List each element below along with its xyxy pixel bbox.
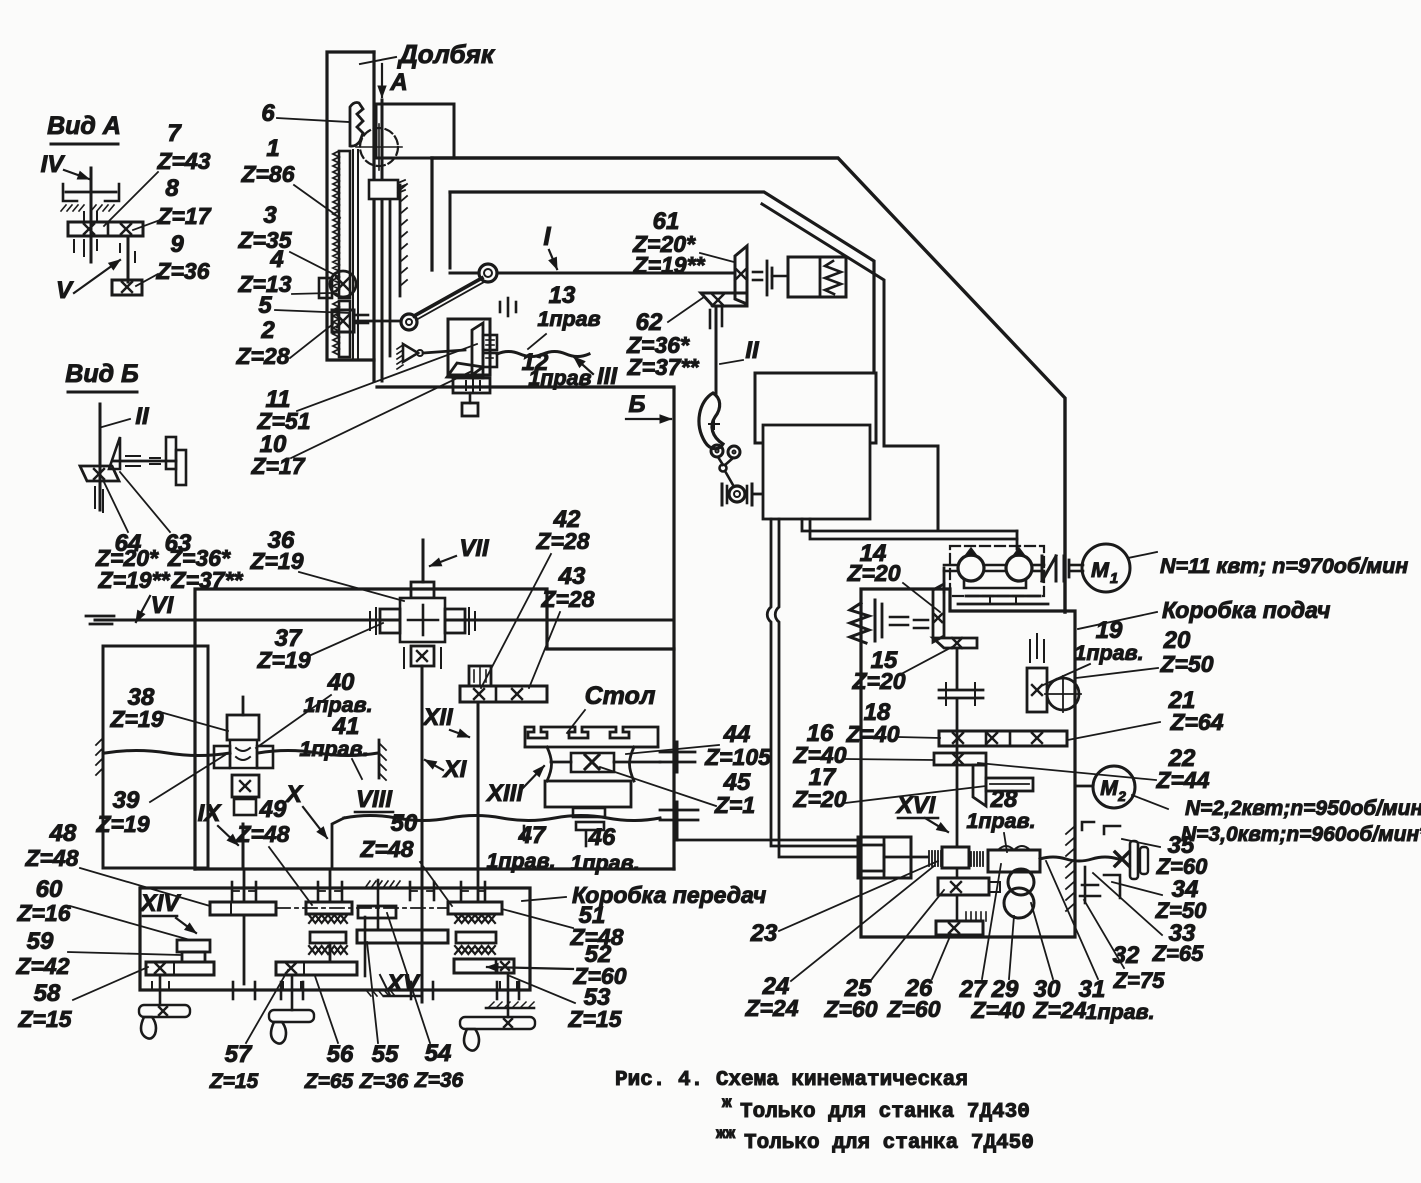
pump shaft (944, 564, 958, 567)
bracket bottom 34 (1104, 875, 1120, 898)
svg-text:1: 1 (266, 135, 279, 162)
machine outer contour (432, 158, 1065, 612)
hydraulic block rear rectangle (755, 373, 876, 443)
dash-dot axis (276, 907, 448, 909)
pawl rollers (711, 445, 723, 457)
slideway wall with hatching (399, 185, 402, 296)
svg-text:Z=1: Z=1 (714, 792, 755, 818)
svg-text:1прав: 1прав (528, 366, 591, 390)
shaft I (450, 272, 479, 275)
shaft IV vertical (90, 168, 93, 262)
svg-text:N=11 квт; n=970об/мин: N=11 квт; n=970об/мин (1160, 554, 1408, 578)
pump 1 (958, 555, 984, 581)
svg-text:7: 7 (167, 120, 182, 147)
shaft XI in box (421, 869, 424, 1002)
thin guide bar right of rack (352, 150, 354, 358)
hydraulic cylinder on shaft XVI (858, 837, 911, 878)
shaft XII vertical (477, 702, 480, 869)
bed horizontal line to Б (377, 385, 674, 388)
bevel gear 14 Z=20 (933, 584, 944, 642)
svg-text:1прав.: 1прав. (299, 737, 368, 761)
svg-text:XV: XV (385, 970, 421, 997)
left gear box outline (195, 589, 674, 869)
bevel gears 3/4 cluster (330, 271, 356, 297)
svg-text:XIV: XIV (139, 890, 182, 917)
svg-text:Z=28: Z=28 (235, 343, 289, 369)
svg-text:Z=37**: Z=37** (627, 354, 700, 380)
shaft under 56 with weight 2 (291, 975, 294, 1010)
bottom bearings (232, 982, 235, 999)
inner contour second line / pump feed (762, 204, 938, 530)
table cross-section with T-slots (525, 727, 658, 747)
pump unit dashed housing (950, 546, 1044, 596)
bearings on box top (231, 882, 234, 900)
svg-text:Стол: Стол (585, 682, 656, 710)
svg-text:23: 23 (750, 920, 778, 947)
link lower pivot (401, 314, 417, 330)
svg-text:Z=43: Z=43 (156, 148, 210, 174)
svg-text:41: 41 (332, 713, 360, 740)
cutter 6 profile (350, 103, 363, 147)
svg-text:XI: XI (442, 756, 468, 783)
shaft from gear 2 to rocker (354, 320, 401, 323)
bold cross on screw shaft (1115, 852, 1129, 866)
gear 9 Z=36 (112, 280, 142, 295)
svg-text:М: М (1100, 777, 1118, 800)
svg-text:9: 9 (170, 231, 184, 258)
svg-text:Z=36: Z=36 (359, 1070, 409, 1093)
svg-text:Z=64: Z=64 (1169, 709, 1223, 735)
svg-text:М: М (1091, 558, 1110, 582)
machine inner contour (450, 192, 874, 372)
cone stack on shaft X (306, 902, 352, 914)
gear bar 25 (938, 878, 989, 895)
ram column left plate (327, 52, 374, 360)
svg-text:Рис. 4. Схема кинематическая: Рис. 4. Схема кинематическая (615, 1069, 968, 1092)
bevel gear 15 Z=20 (933, 638, 977, 648)
gear circles 29 30 (1008, 869, 1034, 895)
shaft XI vertical (421, 666, 424, 869)
svg-text:Б: Б (629, 391, 646, 418)
gear 36/37 cross assembly on VI/VII (422, 540, 425, 582)
svg-text:Z=17: Z=17 (156, 203, 211, 229)
svg-text:Z=86: Z=86 (240, 161, 294, 187)
link line to feed box (677, 839, 861, 842)
hydraulic cylinder box (763, 425, 870, 519)
svg-text:VII: VII (459, 535, 490, 562)
gear rack 1 Z=86 upper part (339, 151, 350, 298)
svg-text:19: 19 (1096, 617, 1123, 644)
shift coupling XVI (942, 847, 969, 868)
svg-text:N=2,2квт;n=950об/мин*: N=2,2квт;n=950об/мин* (1185, 797, 1421, 820)
svg-text:Z=20: Z=20 (846, 560, 900, 586)
svg-text:Z=19: Z=19 (249, 548, 303, 574)
svg-text:1прав.: 1прав. (1074, 641, 1143, 665)
hatch on bottom edge (366, 990, 371, 996)
svg-text:Z=50: Z=50 (1159, 651, 1213, 677)
valve on box (729, 486, 745, 502)
svg-text:Вид Б: Вид Б (65, 360, 138, 388)
gear 56 bar (276, 962, 357, 975)
svg-text:ж: ж (722, 1094, 732, 1112)
svg-text:Z=24: Z=24 (744, 995, 798, 1021)
svg-text:Z=19: Z=19 (109, 706, 163, 732)
svg-text:Z=60: Z=60 (823, 996, 877, 1022)
shaft IX in box (243, 869, 246, 902)
shaft IX vertical (242, 824, 245, 869)
shaft II (view B) vertical (99, 404, 102, 510)
svg-text:2: 2 (1117, 788, 1126, 804)
svg-text:Z=40: Z=40 (845, 721, 899, 747)
bevel gear 10 Z=17 (447, 363, 483, 378)
gear rack lower part (339, 301, 350, 357)
gear 63 (view B) right flanges (166, 437, 176, 469)
svg-text:4: 4 (269, 246, 283, 273)
svg-text:20: 20 (1163, 627, 1191, 654)
svg-text:Z=16: Z=16 (16, 900, 70, 926)
labels N for M2 with leader (1132, 795, 1168, 809)
svg-text:50: 50 (391, 810, 418, 837)
left wall hatching (102, 735, 105, 775)
arrow A (cut direction) (381, 64, 383, 97)
svg-text:2: 2 (260, 317, 275, 344)
bevel flag under 16 (973, 765, 986, 806)
shaft II vertical (715, 306, 718, 412)
wavy shaft 46/47 (344, 816, 660, 821)
svg-text:58: 58 (34, 980, 61, 1007)
svg-text:Z=15: Z=15 (209, 1070, 259, 1093)
svg-text:VI: VI (151, 592, 175, 619)
svg-text:II: II (135, 403, 150, 430)
svg-text:1прав.: 1прав. (486, 849, 555, 873)
nut halves 35 (1130, 841, 1138, 879)
shaft X in box (329, 869, 332, 902)
svg-text:54: 54 (425, 1040, 452, 1067)
gear 7 Z=43 and gear 8 Z=17 bar (68, 222, 143, 236)
svg-text:Z=44: Z=44 (1155, 767, 1209, 793)
svg-text:48: 48 (49, 820, 77, 847)
bevel gearbox housing (448, 319, 490, 375)
svg-text:Z=60: Z=60 (886, 996, 940, 1022)
svg-text:49: 49 (259, 796, 287, 823)
middle gears 54/55 on XI (358, 906, 396, 918)
splined shaft 28 (986, 778, 1033, 791)
svg-text:Z=75: Z=75 (1113, 968, 1166, 993)
rocker pivot triangle (403, 344, 418, 362)
svg-text:X: X (284, 781, 304, 808)
svg-text:Z=36: Z=36 (155, 258, 209, 284)
pump 2 (1006, 555, 1032, 581)
svg-text:1прав.: 1прав. (1085, 1000, 1154, 1024)
svg-text:Z=19: Z=19 (256, 647, 310, 673)
gear 16 Z=40 bar (934, 753, 986, 765)
svg-text:Z=65: Z=65 (304, 1070, 354, 1093)
svg-text:XVI: XVI (895, 792, 937, 819)
svg-text:1: 1 (1110, 570, 1118, 587)
connecting rod (414, 278, 482, 316)
clutch blocks III (483, 335, 497, 350)
svg-text:60: 60 (36, 876, 63, 903)
lower bearing block (453, 378, 490, 393)
motor M1 (1082, 544, 1130, 592)
bevel gear 11 Z=51 (472, 323, 483, 375)
svg-text:47: 47 (518, 822, 547, 849)
gear block 28 with springs (988, 850, 1040, 872)
svg-text:5: 5 (258, 292, 272, 319)
bearing bracket on IV (63, 184, 77, 201)
cross shaft (view B) (114, 460, 176, 463)
svg-text:IV: IV (41, 151, 66, 178)
svg-text:III: III (597, 363, 618, 390)
shaft marks below 64 (94, 487, 96, 508)
svg-text:56: 56 (327, 1041, 354, 1068)
svg-text:Z=20: Z=20 (792, 786, 846, 812)
leader lines to 23-31 (779, 861, 938, 931)
svg-text:IX: IX (198, 800, 223, 827)
pawl linkage (718, 457, 723, 465)
shaft XII in box (477, 869, 480, 902)
svg-text:Z=48: Z=48 (235, 821, 289, 847)
vertical shaft in feed box (956, 648, 959, 688)
bracket top (1104, 826, 1120, 834)
gear bar 42/43 on shaft XII (460, 686, 547, 702)
gear 48 Z=48 bar on IX (210, 902, 276, 915)
vertical dashes above box (499, 302, 502, 312)
svg-text:XIII: XIII (485, 780, 524, 807)
svg-text:Z=36: Z=36 (414, 1069, 464, 1092)
svg-text:Коробка подач: Коробка подач (1162, 597, 1330, 623)
wavy feed screw 40/41 (105, 751, 230, 756)
table base (545, 781, 631, 807)
svg-text:жж: жж (716, 1125, 736, 1143)
supports under table (573, 808, 605, 817)
shaft V vertical (127, 236, 130, 282)
svg-text:Z=48: Z=48 (24, 845, 78, 871)
hatch on top edge (365, 881, 370, 888)
svg-text:59: 59 (27, 928, 54, 955)
shaft XIV down to weight (159, 975, 162, 1005)
coupling on shaft I end (753, 271, 762, 274)
crank circle on shaft I (479, 264, 497, 282)
svg-text:Только для станка 7Д450: Только для станка 7Д450 (744, 1132, 1034, 1155)
vertical line to feed area (Б) (672, 389, 675, 869)
svg-text:3: 3 (263, 202, 277, 229)
gear 2 Z=28 (332, 310, 354, 332)
svg-text:Z=17: Z=17 (250, 453, 305, 479)
svg-text:VIII: VIII (356, 786, 393, 813)
pump base plates (966, 595, 1040, 598)
svg-text:1прав.: 1прав. (966, 809, 1035, 833)
pawl claw (699, 393, 723, 449)
feed box outline (861, 589, 1075, 937)
pipes to pump unit (802, 519, 1017, 531)
wavy shaft III (497, 352, 589, 357)
weight 3 (460, 1017, 535, 1029)
shaft under 52 with weight 3 (507, 973, 510, 1017)
svg-text:Z=15: Z=15 (567, 1006, 622, 1032)
svg-text:1прав: 1прав (537, 307, 600, 331)
rack symbols 44/45 (676, 742, 679, 772)
svg-text:39: 39 (113, 787, 140, 814)
svg-text:31: 31 (1079, 976, 1106, 1003)
pipes down from cylinder box (767, 519, 858, 846)
svg-text:А: А (389, 69, 407, 96)
svg-text:Z=19**: Z=19** (98, 567, 171, 593)
bevel gear 62 Z=36*/Z=37** (701, 293, 747, 306)
svg-text:46: 46 (588, 824, 616, 851)
svg-text:II: II (745, 337, 760, 364)
svg-text:Z=19**: Z=19** (633, 252, 706, 278)
gear box outline (140, 888, 530, 990)
svg-text:Z=28: Z=28 (535, 528, 589, 554)
cutter pitch circle (dashed) (360, 128, 398, 166)
svg-text:1прав.: 1прав. (570, 851, 639, 875)
svg-text:I: I (543, 221, 551, 251)
svg-text:Z=48: Z=48 (359, 836, 413, 862)
cone stack on shaft XII right (448, 902, 502, 914)
splines left of coupling (928, 851, 930, 866)
svg-text:55: 55 (372, 1041, 399, 1068)
svg-text:8: 8 (165, 175, 179, 202)
motor M2 (1093, 766, 1135, 808)
bracket on column top (376, 104, 454, 158)
svg-text:Z=105: Z=105 (704, 744, 772, 770)
spring cylinder of clutch (788, 257, 846, 297)
svg-text:Z=42: Z=42 (15, 953, 69, 979)
hanging stop square (469, 393, 472, 403)
inner chamber of left box (103, 646, 208, 868)
spring detent in feed box corner (850, 603, 869, 643)
wavy shaft through feed box wall (1040, 857, 1118, 861)
worm gear 44 Z=105 box (571, 753, 614, 772)
gear 52/53 bar (454, 959, 514, 973)
gear 38/39 cross assembly (242, 697, 245, 715)
svg-text:Z=35: Z=35 (237, 227, 292, 253)
bevel gear 61 Z=20*/Z=19** (735, 246, 747, 304)
feed box wall hatching (1066, 826, 1075, 834)
svg-text:Z=19: Z=19 (95, 811, 149, 837)
gear bar 26 (936, 921, 983, 935)
gear row 18/21 bar (939, 731, 1067, 746)
svg-text:N=3,0квт;n=960об/мин**: N=3,0квт;n=960об/мин** (1181, 823, 1421, 846)
svg-text:13: 13 (549, 282, 576, 309)
bevel gear 64 (view B) (80, 466, 119, 481)
svg-text:40: 40 (327, 669, 355, 696)
clutch on feed shaft (939, 689, 983, 692)
svg-text:Вид А: Вид А (47, 112, 121, 140)
right wall of screw with hatching (378, 740, 381, 778)
svg-text:Только для станка 7Д430: Только для станка 7Д430 (740, 1101, 1030, 1124)
pump drive shaft down to bevel 14 (943, 568, 946, 592)
crosshead piston (369, 180, 398, 199)
svg-text:Z=65: Z=65 (1152, 941, 1205, 966)
table body sides (547, 747, 552, 781)
svg-text:Z=40: Z=40 (970, 997, 1024, 1023)
svg-text:Z=15: Z=15 (17, 1006, 72, 1032)
ram slide vertical bars (372, 52, 375, 381)
flexible coupling to M1 (1041, 556, 1044, 581)
svg-text:Долбяк: Долбяк (397, 39, 496, 69)
shaft VI (95, 619, 674, 622)
gear 19 with overload clutch (1027, 668, 1047, 712)
splines right of coupling (970, 852, 972, 866)
weight 1 (139, 1005, 190, 1017)
svg-text:V: V (56, 277, 74, 304)
svg-text:6: 6 (261, 100, 275, 127)
leaders for 54-57 (246, 970, 288, 1043)
rocker lever (423, 350, 465, 353)
svg-text:XII: XII (421, 704, 454, 731)
svg-text:Z=28: Z=28 (540, 586, 594, 612)
svg-text:57: 57 (225, 1041, 253, 1068)
hatch line above weight 3 (486, 1007, 534, 1010)
